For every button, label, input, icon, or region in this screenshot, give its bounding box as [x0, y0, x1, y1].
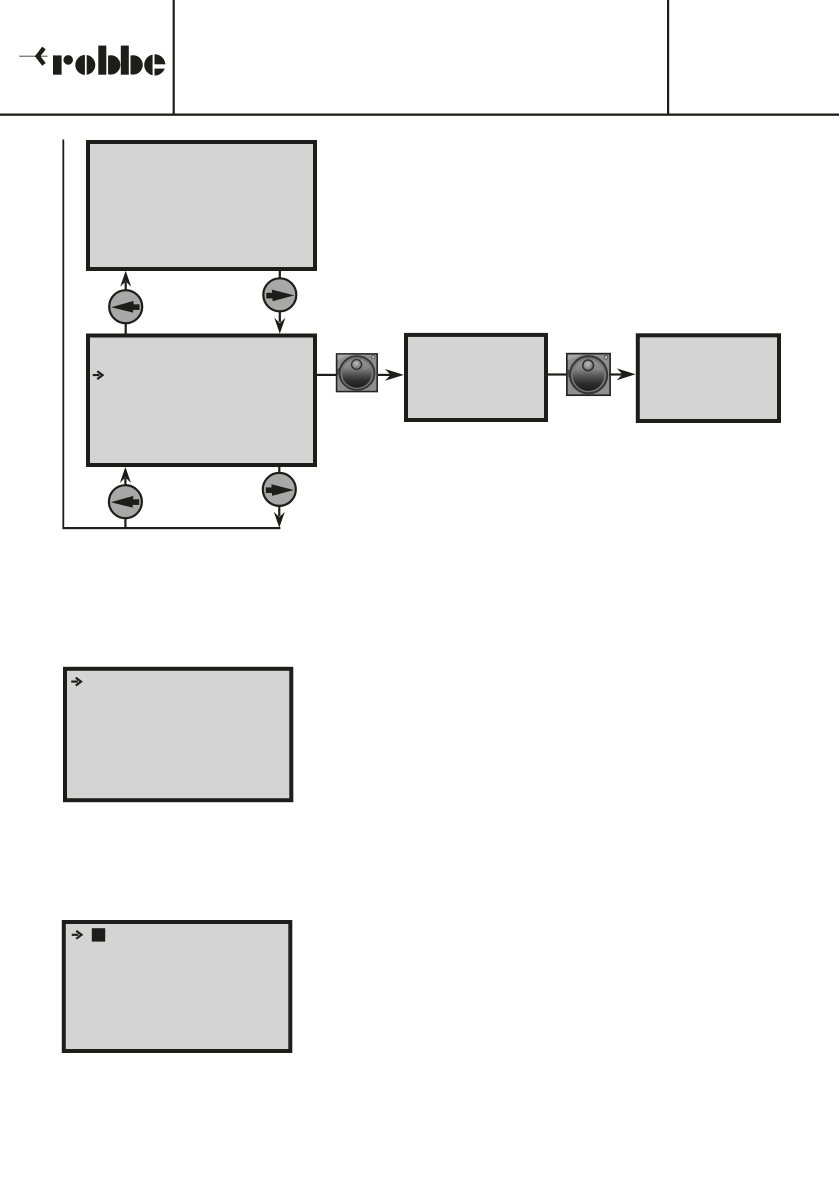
- 3D rotary knob 1: [337, 354, 378, 392]
- robbe logo letter b1: [98, 46, 120, 75]
- robbe logo letter r: [53, 55, 73, 75]
- arrowhead into box 3: [385, 369, 404, 381]
- wire down from left button 1 to box 2: [125, 323, 127, 336]
- scroll button lower-right: [263, 473, 296, 506]
- scroll button upper-left: [109, 290, 142, 323]
- wire box 2 to knob 1: [317, 374, 336, 376]
- wire from box 1 down to right button 1: [279, 271, 281, 280]
- cursor arrow in box 6: [72, 931, 82, 939]
- header rule horizontal: [0, 114, 839, 116]
- wire knob 2 to arrow: [610, 373, 623, 375]
- wire loop bottom horizontal: [62, 527, 280, 529]
- 3D rotary knob 2: [567, 354, 610, 396]
- display box 1 (top): [88, 142, 315, 269]
- arrowhead down into box 2: [274, 318, 285, 334]
- scroll button lower-left: [109, 485, 142, 518]
- arrowhead up into box 2 bottom: [120, 467, 131, 483]
- scroll button upper-right: [263, 278, 296, 311]
- wire down from left button 2 to loop: [124, 518, 126, 529]
- robbe logo airplane line: [19, 56, 47, 57]
- wire box 3 to knob 2: [548, 373, 566, 375]
- header divider line left: [173, 0, 175, 114]
- cursor arrow in box 5: [71, 678, 81, 686]
- black cursor block in box 6: [92, 928, 105, 941]
- robbe logo letter o: [75, 54, 95, 76]
- display box 2 (middle): [88, 336, 315, 466]
- wire knob 1 to arrow: [378, 374, 391, 376]
- robbe logo letter b2: [121, 46, 143, 75]
- wire from box 2 down to right button 2: [278, 467, 280, 474]
- display box 3: [406, 335, 546, 420]
- wire up from left button 1: [125, 282, 127, 291]
- arrowhead up into box 1: [120, 271, 131, 287]
- wire down from right button 1: [279, 311, 281, 322]
- wire loop left vertical: [62, 140, 64, 529]
- wire up from left button 2: [124, 478, 126, 486]
- display box 5 (standalone upper): [65, 669, 291, 800]
- header divider line right: [667, 0, 669, 114]
- robbe logo airplane chevron: [38, 48, 44, 64]
- arrowhead down onto loop: [274, 512, 285, 528]
- wire down from right button 2: [278, 506, 280, 517]
- cursor arrow in box 2: [93, 371, 103, 379]
- robbe logo letter e: [144, 54, 166, 77]
- display box 6 (standalone lower): [64, 922, 290, 1051]
- display box 4: [638, 335, 779, 421]
- arrowhead into box 4: [617, 368, 636, 380]
